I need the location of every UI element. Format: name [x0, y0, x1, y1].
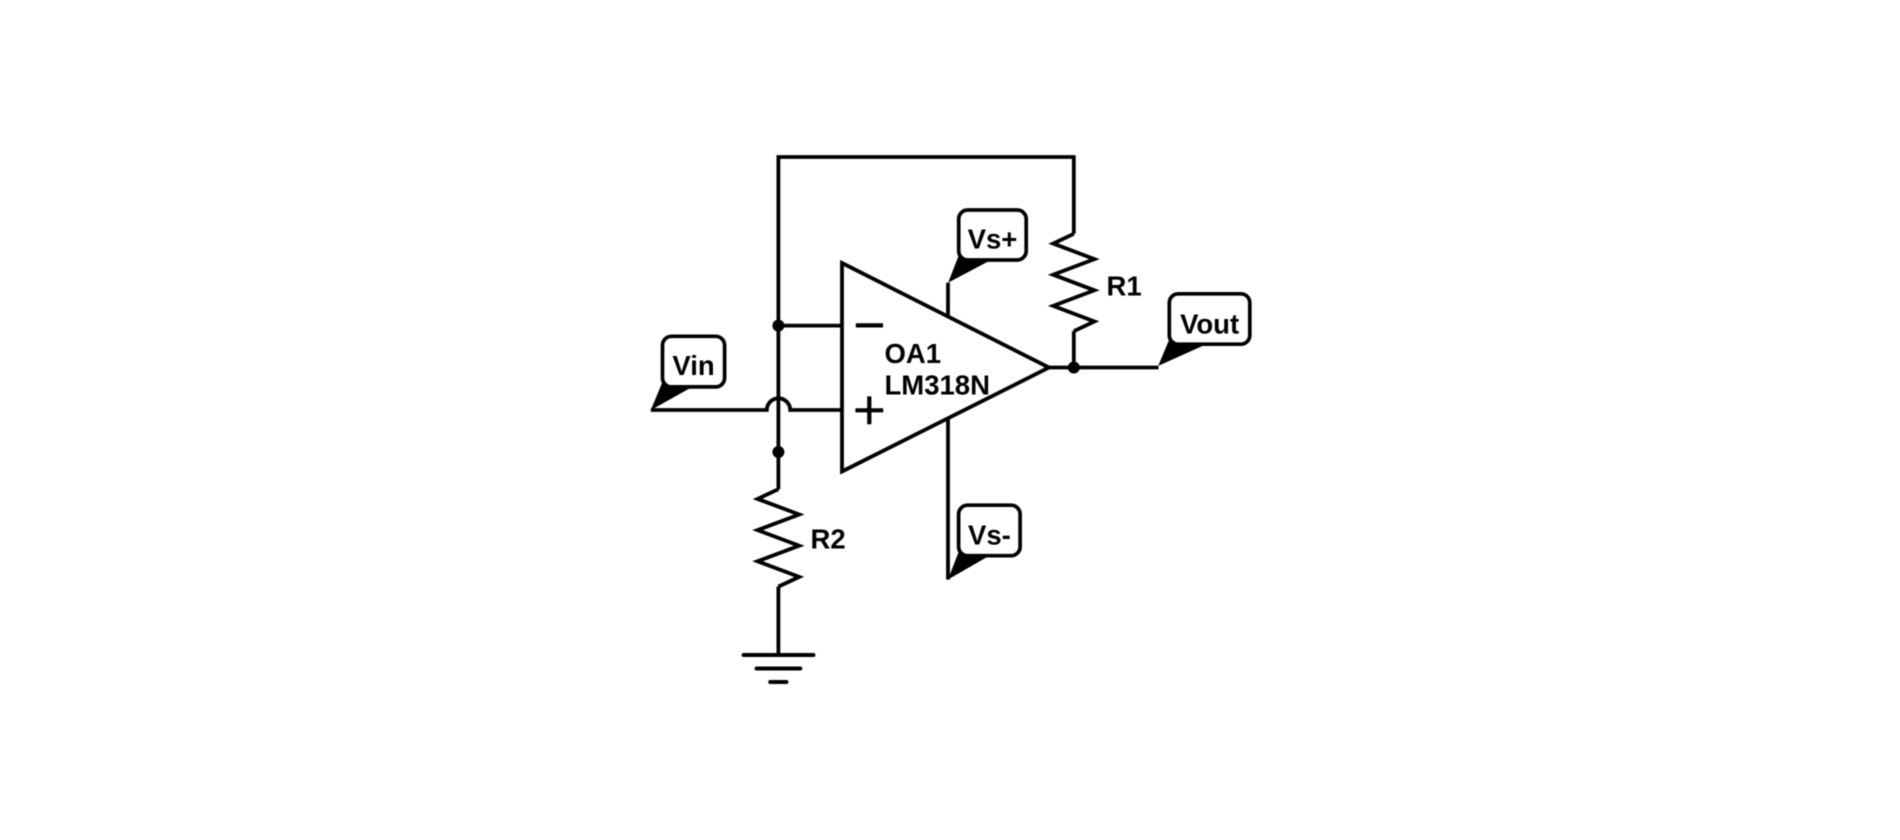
- ground symbol (three bars): [744, 655, 814, 682]
- wire R1 bottom lead to output node: [1072, 331, 1076, 367]
- svg-text:Vin: Vin: [672, 350, 714, 381]
- op-amp inverting input minus symbol: [856, 323, 883, 327]
- junction node dot on vertical net above R2: [772, 446, 784, 458]
- junction node dot at output / R1 bottom: [1068, 362, 1080, 374]
- svg-text:Vs+: Vs+: [968, 224, 1018, 255]
- flag label Vin (box, pointer, text): [651, 336, 725, 410]
- wire R1 top lead from top feedback wire: [1072, 155, 1076, 234]
- resistor R2 zigzag body: [758, 489, 800, 586]
- svg-text:R2: R2: [811, 524, 846, 555]
- wire V+ supply pin lead up from op-amp top edge: [946, 283, 950, 317]
- wire output from op-amp tip to Vout anchor: [1049, 366, 1159, 370]
- op-amp U1 triangle body: [842, 263, 1049, 472]
- svg-text:OA1: OA1: [885, 338, 942, 369]
- junction node dot at inverting input tap: [772, 320, 784, 332]
- svg-text:R1: R1: [1107, 271, 1142, 302]
- flag label Vs+ (box, pointer, text): [948, 210, 1026, 283]
- flag label Vs- (box, pointer, text): [948, 505, 1020, 579]
- wire V- supply pin lead down from op-amp bottom edge: [946, 418, 950, 580]
- svg-text:LM318N: LM318N: [885, 370, 990, 401]
- svg-text:Vs-: Vs-: [968, 519, 1011, 550]
- wire inverting input lead from feedback vertical to op-amp: [778, 324, 842, 328]
- wire R2 bottom lead to ground: [777, 587, 781, 655]
- flag label Vout (box, pointer, text): [1158, 294, 1250, 366]
- wire Vin input with hop over feedback vertical, to non-inverting input: [651, 398, 842, 410]
- op-amp non-inverting input plus symbol: [855, 396, 883, 424]
- wire feedback: top horizontal and left vertical (output net to inverting input / R2): [778, 157, 1073, 489]
- resistor R1 zigzag body: [1053, 234, 1094, 331]
- svg-text:Vout: Vout: [1180, 309, 1239, 340]
